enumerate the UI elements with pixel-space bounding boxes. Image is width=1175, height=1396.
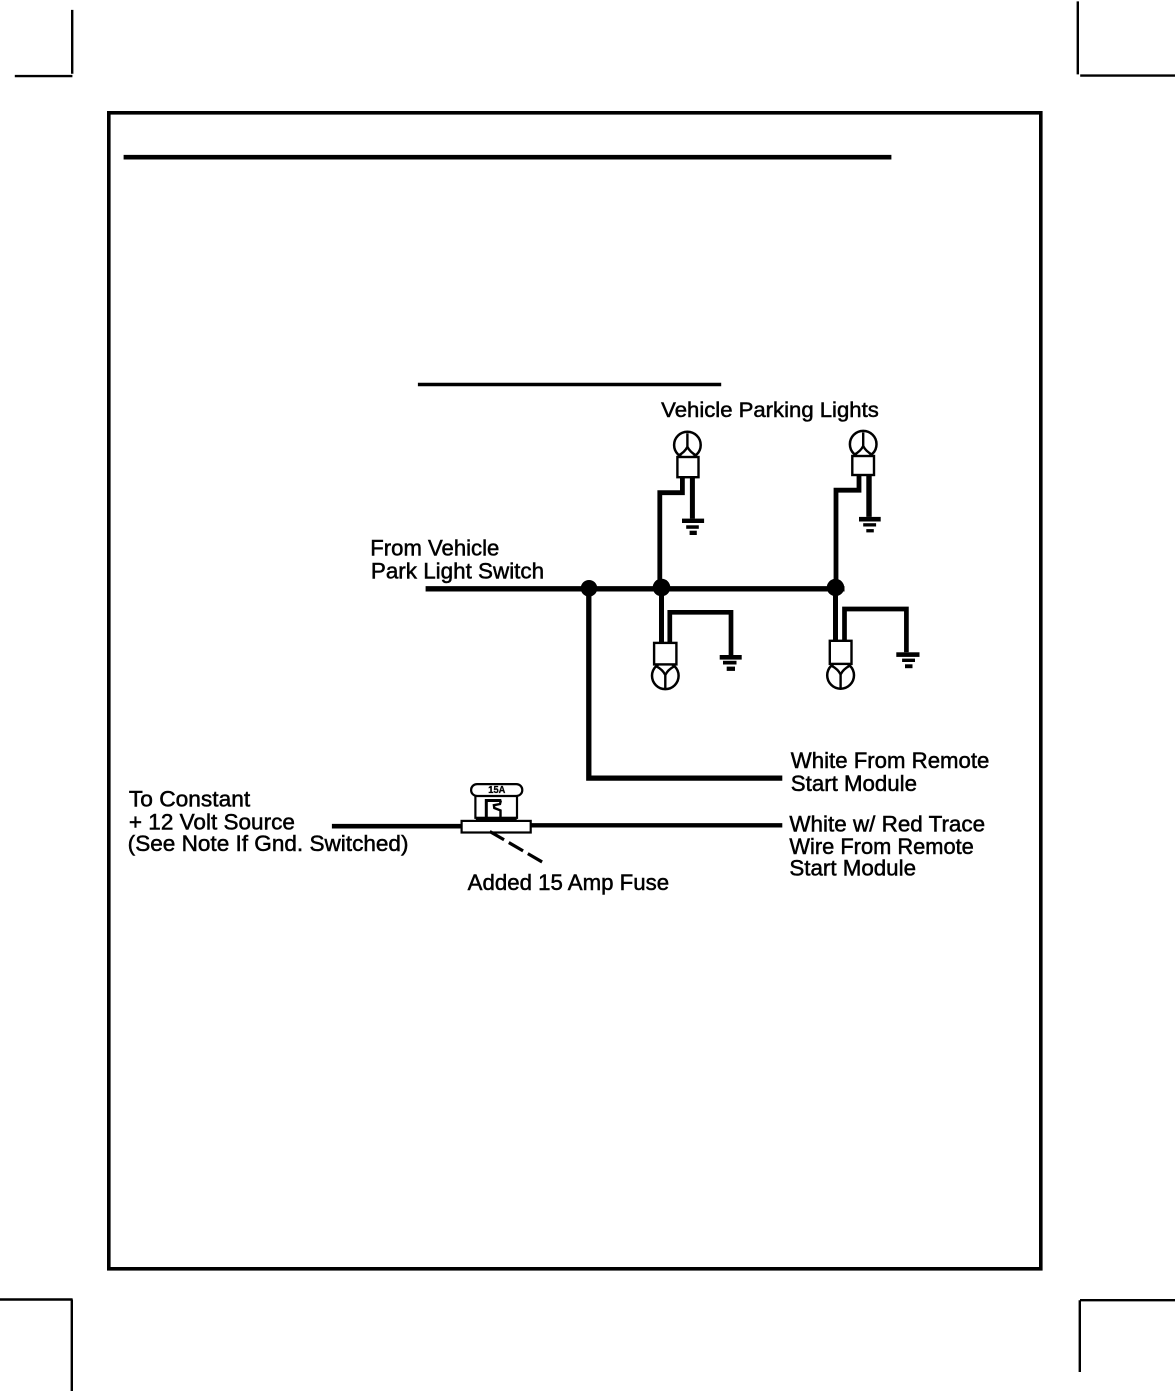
wire from +12V source to fuse holder — [332, 824, 462, 829]
svg-text:White From Remote: White From Remote — [791, 748, 990, 773]
svg-text:Added 15 Amp Fuse: Added 15 Amp Fuse — [468, 870, 669, 895]
wire L2 left lead down to bus junction B — [836, 475, 859, 588]
node J3 (right lamps tap) — [827, 579, 844, 596]
wire from fuse holder to remote start module (white w/ red trace) — [531, 823, 783, 827]
svg-text:Park Light Switch: Park Light Switch — [371, 558, 544, 583]
wire L1 right lead to ground — [690, 476, 695, 519]
lamp L2 (upper-right parking light bulb) — [850, 431, 877, 475]
wire from node J3 down to L4 — [833, 588, 838, 642]
wire from node J2 down to L3 — [659, 588, 664, 644]
node J2 (left lamps tap) — [653, 579, 671, 597]
node J1 (tap to remote start module wire) — [581, 580, 598, 597]
wire L4 second lead to ground — [845, 609, 907, 652]
svg-text:Start Module: Start Module — [789, 856, 916, 881]
leader line (dashed) to fuse — [490, 832, 544, 864]
fuse F1 (added 15 amp fuse in holder) — [462, 784, 531, 832]
svg-text:From Vehicle: From Vehicle — [370, 536, 499, 561]
svg-text:To Constant: To Constant — [129, 786, 250, 811]
title underline — [124, 155, 892, 160]
wire park-light bus — [426, 586, 845, 591]
wire L2 right lead to ground — [866, 475, 871, 517]
wire L3 second lead to ground — [670, 612, 731, 655]
ground (under L1) — [682, 519, 704, 535]
svg-text:(See Note If Gnd. Switched): (See Note If Gnd. Switched) — [128, 831, 409, 856]
wire from node J1 to remote start module (white wire) — [589, 588, 783, 778]
ground (right of L4) — [896, 652, 919, 668]
svg-text:Start Module: Start Module — [791, 771, 917, 796]
wire L1 left lead down to bus junction A — [660, 476, 683, 588]
section underline — [418, 383, 721, 387]
svg-text:15A: 15A — [488, 785, 505, 796]
lamp L1 (upper-left parking light bulb) — [674, 432, 701, 478]
svg-text:White w/ Red Trace: White w/ Red Trace — [789, 812, 985, 837]
ground (under L2) — [859, 517, 881, 532]
svg-text:Vehicle Parking Lights: Vehicle Parking Lights — [661, 399, 879, 422]
ground (right of L3) — [720, 655, 742, 671]
